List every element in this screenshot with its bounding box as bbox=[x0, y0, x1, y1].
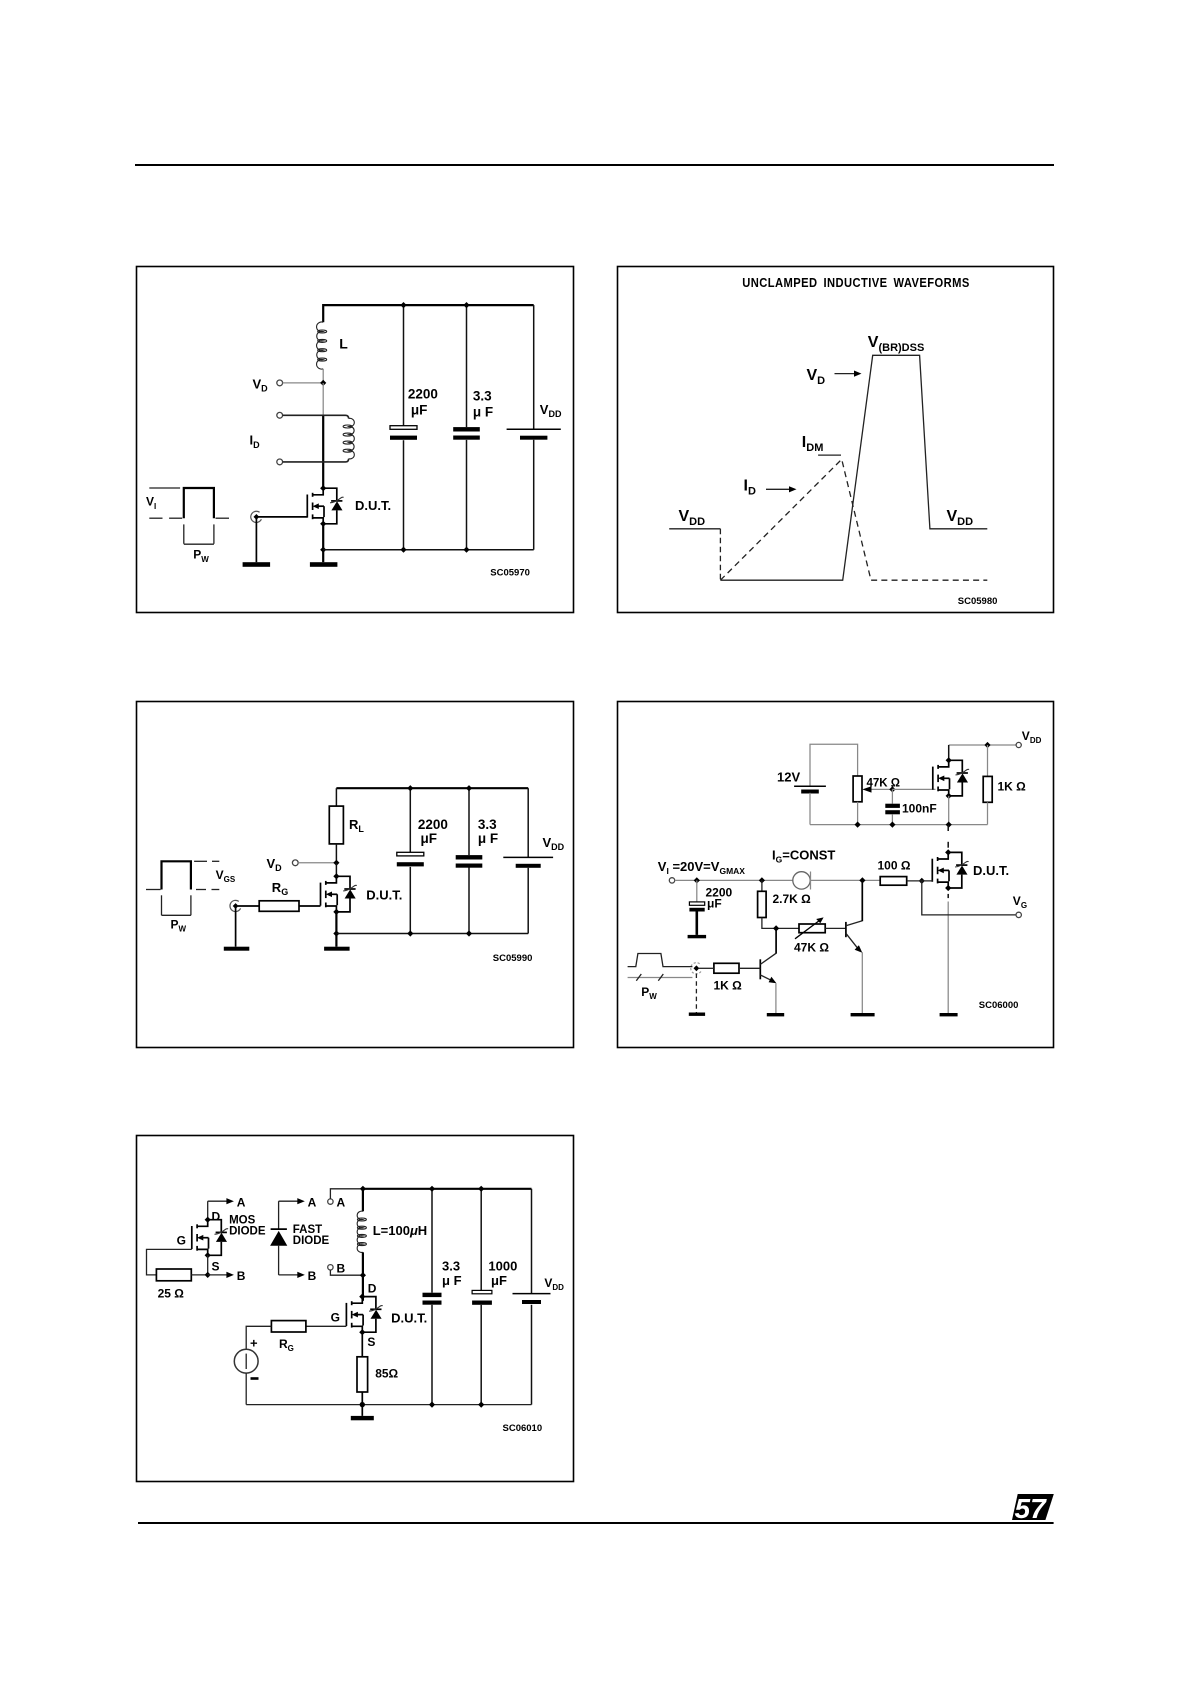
wire bbox=[299, 905, 321, 907]
wire bbox=[207, 1201, 209, 1224]
capacitor 2200uF bbox=[689, 902, 704, 912]
node junction bbox=[463, 302, 469, 308]
capacitor C2 3.3uF bbox=[456, 855, 483, 868]
wire dashed below source bbox=[947, 894, 949, 898]
svg-text:D.U.T.: D.U.T. bbox=[391, 1311, 427, 1326]
node IDM level tick bbox=[818, 454, 841, 456]
ground bbox=[324, 947, 350, 951]
node B junction bbox=[360, 1272, 366, 1278]
node junction bbox=[400, 547, 406, 553]
node VD terminal bbox=[277, 380, 283, 386]
wire bbox=[891, 814, 893, 824]
wire bbox=[468, 788, 470, 855]
svg-text:SC06010: SC06010 bbox=[503, 1423, 543, 1434]
transistor Q1 follower (N-MOSFET with body diode) bbox=[933, 760, 969, 796]
wire battery to bottom rail bbox=[809, 793, 811, 825]
wire top VDD rail bbox=[323, 304, 534, 306]
svg-text:μ F: μ F bbox=[473, 404, 493, 419]
arrow to node A (fast diode) bbox=[279, 1198, 305, 1204]
wire dashed link to DUT drain bbox=[947, 825, 949, 831]
svg-text:1000: 1000 bbox=[488, 1259, 517, 1274]
svg-text:25 Ω: 25 Ω bbox=[158, 1287, 185, 1301]
node source bbox=[205, 1252, 211, 1258]
wire bbox=[403, 440, 405, 550]
wire bbox=[306, 1325, 347, 1327]
svg-text:VD: VD bbox=[807, 367, 826, 387]
node B junction bbox=[205, 1272, 211, 1278]
node junction bbox=[855, 822, 861, 828]
figure frame SC06010 (diode recovery test circuit) bbox=[137, 1136, 574, 1482]
battery VDD bbox=[513, 1294, 551, 1304]
wire bbox=[431, 1305, 433, 1405]
wire 12V loop top bbox=[810, 744, 858, 786]
wire bbox=[403, 305, 405, 426]
ST logo bbox=[1012, 1493, 1054, 1524]
wire bottom rail bbox=[336, 933, 528, 935]
svg-text:B: B bbox=[237, 1269, 246, 1283]
wire bbox=[191, 1274, 207, 1276]
wire bbox=[361, 1332, 363, 1357]
transistor Q3 (NPN) bbox=[846, 921, 862, 953]
svg-text:1K Ω: 1K Ω bbox=[714, 979, 743, 993]
svg-text:μ F: μ F bbox=[442, 1273, 462, 1288]
svg-text:S: S bbox=[212, 1260, 220, 1274]
node junction bbox=[478, 1186, 484, 1192]
node source-rail junction bbox=[320, 547, 326, 553]
svg-text:ID: ID bbox=[744, 478, 756, 498]
resistor RL bbox=[329, 806, 343, 844]
svg-text:μF: μF bbox=[411, 403, 428, 418]
node VI input terminal bbox=[669, 878, 674, 883]
svg-text:D: D bbox=[368, 1281, 377, 1295]
svg-text:RL: RL bbox=[349, 817, 364, 834]
svg-text:D.U.T.: D.U.T. bbox=[366, 888, 402, 903]
svg-text:47K Ω: 47K Ω bbox=[794, 941, 829, 955]
node junction bbox=[360, 1402, 365, 1407]
resistor 2.7K bbox=[758, 891, 767, 917]
resistor 47K pot bbox=[853, 776, 862, 802]
node B terminal bbox=[328, 1265, 333, 1270]
ground bbox=[940, 1013, 958, 1016]
wire bbox=[409, 867, 411, 934]
capacitor 1000uF bbox=[472, 1290, 492, 1304]
svg-text:47K Ω: 47K Ω bbox=[867, 778, 901, 790]
bottom footer rule bbox=[0, 1485, 1191, 1545]
svg-text:VI: VI bbox=[146, 495, 156, 511]
wire ground stem bbox=[361, 1405, 363, 1416]
wire bbox=[531, 1189, 533, 1294]
svg-text:VD: VD bbox=[253, 376, 269, 393]
wire VD sense bbox=[283, 382, 324, 384]
wire bbox=[825, 927, 846, 929]
inductor L bbox=[317, 304, 327, 369]
wire bbox=[696, 880, 698, 902]
wire bbox=[891, 789, 893, 803]
svg-text:UNCLAMPED INDUCTIVE WAVEFORMS: UNCLAMPED INDUCTIVE WAVEFORMS bbox=[742, 275, 970, 290]
ground bbox=[243, 562, 271, 567]
capacitor C2 3.3uF bbox=[453, 427, 480, 440]
node junction bbox=[859, 877, 865, 883]
node source bbox=[320, 521, 326, 527]
svg-text:100nF: 100nF bbox=[902, 802, 937, 816]
node drain bbox=[946, 757, 952, 763]
node VG terminal bbox=[1016, 912, 1021, 917]
battery 12V bbox=[794, 786, 826, 793]
battery VDD bbox=[503, 857, 553, 867]
wire bbox=[335, 844, 337, 863]
node drain bbox=[945, 849, 951, 855]
svg-text:VDD: VDD bbox=[679, 508, 706, 528]
wire source down to rail bbox=[948, 796, 950, 825]
node junction bbox=[946, 822, 952, 828]
wire bbox=[466, 440, 468, 550]
resistor 85ohm bbox=[357, 1357, 368, 1392]
wire bbox=[480, 1305, 482, 1405]
arrow to node A (MOS diode) bbox=[208, 1198, 234, 1204]
svg-text:12V: 12V bbox=[777, 770, 800, 785]
svg-text:D.U.T.: D.U.T. bbox=[973, 863, 1009, 878]
node gate drive connector bbox=[251, 511, 262, 522]
svg-text:G: G bbox=[177, 1233, 186, 1247]
wire bbox=[409, 788, 411, 852]
node junction bbox=[466, 785, 472, 791]
node junction bbox=[429, 1402, 435, 1408]
wire bbox=[207, 1255, 209, 1275]
resistor 1K bbox=[983, 776, 992, 802]
pulse source waveform VI bbox=[149, 488, 229, 544]
node drain bbox=[320, 485, 326, 491]
wire to DUT drain bbox=[362, 1275, 364, 1301]
transistor DUT (N-MOSFET with body diode) bbox=[932, 852, 968, 888]
battery VDD bbox=[507, 429, 561, 439]
resistor 1K bbox=[714, 963, 739, 973]
figure frame SC06000 (gate charge test circuit) bbox=[618, 702, 1054, 1048]
svg-text:SC05990: SC05990 bbox=[493, 953, 533, 964]
svg-text:SC06000: SC06000 bbox=[979, 1000, 1019, 1011]
svg-text:L: L bbox=[339, 336, 348, 352]
svg-text:2200: 2200 bbox=[418, 817, 448, 832]
svg-text:A: A bbox=[337, 1195, 346, 1209]
svg-text:VD: VD bbox=[267, 856, 283, 873]
svg-text:MOS: MOS bbox=[229, 1214, 256, 1226]
wire bbox=[238, 905, 259, 907]
wire bbox=[811, 879, 881, 881]
svg-text:DIODE: DIODE bbox=[293, 1235, 330, 1247]
node source-rail junction bbox=[333, 930, 339, 936]
svg-text:+: + bbox=[250, 1336, 258, 1351]
wire bias bottom rail bbox=[810, 824, 988, 826]
node gate drive connector bbox=[230, 900, 241, 911]
node junction bbox=[889, 822, 895, 828]
svg-text:VI =20V=VGMAX: VI =20V=VGMAX bbox=[658, 859, 745, 876]
wire bbox=[246, 1326, 271, 1349]
wire VDD rail bbox=[949, 744, 1017, 746]
wire bbox=[739, 967, 760, 969]
resistor 47K var bbox=[799, 924, 825, 933]
svg-text:SC05980: SC05980 bbox=[958, 596, 998, 607]
capacitor 100nF bbox=[885, 804, 900, 815]
wire bbox=[361, 1392, 363, 1405]
capacitor C1 2200uF bbox=[390, 426, 417, 440]
node source bbox=[945, 885, 951, 891]
svg-text:G: G bbox=[331, 1311, 340, 1325]
svg-text:IG=CONST: IG=CONST bbox=[772, 848, 835, 865]
svg-text:S: S bbox=[367, 1335, 375, 1349]
node drain bbox=[205, 1217, 211, 1223]
wire bbox=[907, 880, 933, 882]
transistor DUT (N-MOSFET with body diode) bbox=[307, 488, 343, 524]
wiper arrow of 47K pot bbox=[862, 786, 892, 792]
wire gate loop bbox=[147, 1249, 192, 1275]
wire bbox=[235, 906, 237, 947]
waveform VD (solid) bbox=[669, 355, 987, 580]
svg-text:FAST: FAST bbox=[293, 1224, 322, 1236]
waveform ID (dashed) bbox=[720, 459, 987, 580]
wire bbox=[695, 912, 698, 935]
node input connector (dashed) bbox=[691, 963, 702, 974]
wire bbox=[531, 1305, 533, 1405]
wire A to rail bbox=[330, 1189, 363, 1199]
wire bbox=[335, 788, 337, 806]
wire bbox=[533, 305, 535, 429]
ground bbox=[767, 1013, 784, 1016]
svg-text:VDD: VDD bbox=[540, 402, 562, 419]
resistor RG bbox=[259, 901, 299, 912]
svg-text:VG: VG bbox=[1013, 894, 1027, 910]
transistor Q2 (NPN) bbox=[760, 953, 776, 983]
wire bbox=[322, 383, 324, 415]
wire top rail bbox=[363, 1188, 532, 1190]
svg-text:ID: ID bbox=[250, 433, 261, 450]
wire bbox=[857, 802, 859, 825]
node ID+ terminal bbox=[277, 412, 283, 418]
wire current-transformer primary / drain bbox=[322, 415, 324, 488]
node junction bbox=[773, 925, 779, 931]
svg-text:VDD: VDD bbox=[543, 835, 565, 852]
voltage source VGS bbox=[234, 1349, 258, 1373]
wire VD bbox=[298, 862, 336, 864]
svg-text:57: 57 bbox=[1015, 1493, 1048, 1524]
svg-text:3.3: 3.3 bbox=[478, 817, 497, 832]
node VD terminal bbox=[292, 860, 298, 866]
node junction bbox=[759, 877, 765, 883]
wire bbox=[987, 745, 989, 776]
node source bbox=[946, 793, 952, 799]
svg-text:VGS: VGS bbox=[216, 868, 236, 884]
node ID- terminal bbox=[277, 459, 283, 465]
wire bbox=[335, 912, 337, 947]
svg-text:PW: PW bbox=[193, 548, 209, 564]
wire bbox=[322, 369, 324, 383]
wire bbox=[431, 1189, 433, 1293]
svg-text:VDD: VDD bbox=[1022, 729, 1042, 745]
label - bbox=[251, 1377, 259, 1380]
svg-text:2.7K Ω: 2.7K Ω bbox=[773, 892, 812, 906]
wire bottom rail bbox=[246, 1404, 531, 1406]
wire emitter to ground bbox=[775, 983, 777, 1013]
wire bbox=[245, 1373, 247, 1405]
ground bbox=[851, 1013, 875, 1016]
svg-text:PW: PW bbox=[171, 918, 187, 934]
node junction bbox=[694, 877, 700, 883]
resistor 100 bbox=[880, 877, 907, 886]
ground bbox=[310, 562, 338, 567]
wire DUT source to ground bbox=[947, 902, 949, 1014]
arrow across 47K var bbox=[795, 920, 821, 939]
svg-text:100 Ω: 100 Ω bbox=[878, 859, 911, 873]
svg-text:3.3: 3.3 bbox=[473, 388, 492, 403]
capacitor C1 2200uF bbox=[397, 852, 424, 866]
svg-text:D: D bbox=[212, 1210, 221, 1224]
svg-text:SC05970: SC05970 bbox=[490, 567, 530, 578]
node junction bbox=[466, 930, 472, 936]
pulse waveform PW bbox=[628, 954, 693, 981]
wire bbox=[468, 867, 470, 933]
svg-text:RG: RG bbox=[279, 1337, 294, 1353]
svg-text:μF: μF bbox=[707, 897, 722, 911]
svg-text:IDM: IDM bbox=[802, 434, 824, 454]
svg-text:B: B bbox=[308, 1269, 317, 1283]
wire top rail bbox=[336, 787, 528, 789]
wire bbox=[255, 517, 257, 562]
wire B to junction bbox=[330, 1270, 363, 1275]
wire bbox=[762, 918, 799, 929]
svg-text:2200: 2200 bbox=[408, 387, 438, 402]
svg-text:μ F: μ F bbox=[478, 831, 498, 846]
node rail junction bbox=[360, 1186, 366, 1192]
wire bbox=[948, 745, 950, 760]
wire gate drive line bbox=[675, 879, 793, 881]
figure frame SC05990 (switching times test circuit) bbox=[137, 702, 574, 1048]
svg-text:μF: μF bbox=[491, 1273, 507, 1288]
wire wiper to gate bbox=[892, 788, 935, 790]
wire gate bbox=[259, 516, 308, 518]
resistor 25ohm bbox=[156, 1269, 191, 1281]
wire dashed to ground bbox=[695, 974, 697, 1013]
node drain bbox=[333, 873, 339, 879]
wire bbox=[527, 788, 529, 857]
node gate junction bbox=[919, 878, 925, 884]
svg-text:VDD: VDD bbox=[544, 1276, 564, 1292]
node source bbox=[359, 1329, 365, 1335]
node junction bbox=[478, 1402, 484, 1408]
svg-text:A: A bbox=[308, 1195, 317, 1209]
ground bbox=[351, 1416, 374, 1420]
wire bbox=[480, 1189, 482, 1291]
node junction bbox=[463, 547, 469, 553]
svg-text:85Ω: 85Ω bbox=[375, 1367, 398, 1381]
wire bbox=[533, 440, 535, 550]
inductor L=100uH bbox=[357, 1189, 366, 1275]
figure frame SC05970 (unclamped inductive load test circuit) bbox=[137, 267, 574, 613]
node rail junction bbox=[984, 742, 990, 748]
wire bbox=[761, 880, 763, 891]
current source IG bbox=[793, 872, 811, 890]
node junction bbox=[407, 930, 413, 936]
svg-text:μF: μF bbox=[421, 831, 438, 846]
transistor MOS diode (N-MOSFET with body diode) bbox=[192, 1220, 228, 1256]
node VD junction bbox=[333, 860, 339, 866]
svg-text:DIODE: DIODE bbox=[229, 1226, 266, 1238]
svg-text:A: A bbox=[237, 1195, 246, 1209]
node drain bbox=[359, 1294, 365, 1300]
wire bbox=[699, 967, 714, 969]
svg-text:D.U.T.: D.U.T. bbox=[355, 498, 391, 513]
wire emitter to ground bbox=[861, 952, 863, 1013]
wire collector up bbox=[775, 928, 777, 953]
wire collector up bbox=[861, 880, 863, 921]
wire bbox=[527, 868, 529, 934]
svg-text:V(BR)DSS: V(BR)DSS bbox=[868, 334, 925, 354]
node A terminal bbox=[328, 1199, 333, 1204]
node junction bbox=[429, 1186, 435, 1192]
wire bbox=[987, 802, 989, 824]
wire bottom rail bbox=[323, 549, 534, 551]
transformer current-sense secondary winding bbox=[277, 412, 355, 464]
top header rule bbox=[0, 155, 1191, 175]
svg-text:B: B bbox=[337, 1261, 346, 1275]
transistor DUT (N-MOSFET with body diode) bbox=[321, 876, 357, 912]
figure frame SC05980 (unclamped inductive waveforms) bbox=[618, 267, 1054, 613]
svg-text:1K Ω: 1K Ω bbox=[998, 780, 1027, 794]
svg-text:PW: PW bbox=[641, 985, 657, 1001]
node source bbox=[333, 909, 339, 915]
transistor DUT (N-MOSFET with body diode) bbox=[346, 1297, 382, 1333]
svg-text:3.3: 3.3 bbox=[442, 1259, 460, 1274]
node wiper junction bbox=[889, 786, 895, 792]
wire bbox=[335, 863, 337, 877]
diode FAST DIODE bbox=[270, 1201, 287, 1275]
arrow to node B (MOS diode) bbox=[208, 1272, 234, 1278]
node VDD terminal bbox=[1016, 742, 1021, 747]
arrow to node B (fast diode) bbox=[279, 1272, 305, 1278]
capacitor C1 3.3uF bbox=[423, 1293, 442, 1305]
wire source to bottom rail bbox=[322, 524, 324, 562]
ground bbox=[688, 935, 707, 938]
pulse source waveform VGS bbox=[146, 861, 219, 915]
resistor RG bbox=[271, 1321, 306, 1332]
node junction bbox=[407, 785, 413, 791]
svg-text:L=100μH: L=100μH bbox=[373, 1223, 427, 1238]
ground bbox=[689, 1013, 705, 1016]
wire bbox=[466, 305, 468, 427]
ground bbox=[224, 947, 250, 951]
svg-text:VDD: VDD bbox=[947, 508, 974, 528]
node VD junction bbox=[320, 380, 326, 386]
svg-text:RG: RG bbox=[272, 880, 288, 897]
node junction bbox=[400, 302, 406, 308]
